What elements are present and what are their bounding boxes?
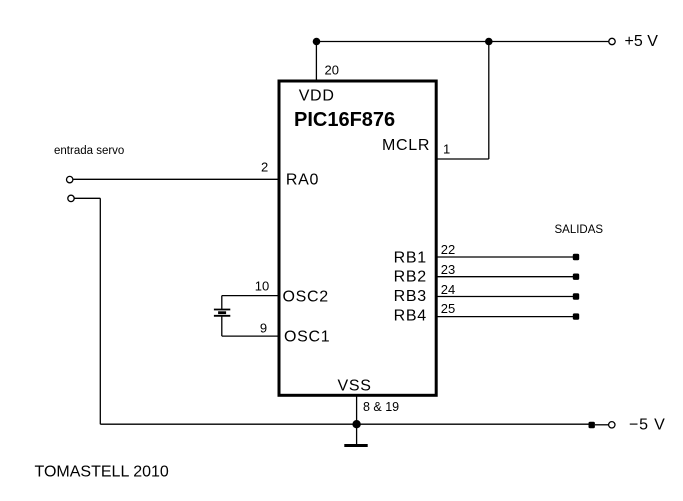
- svg-text:−5 V: −5 V: [629, 417, 666, 434]
- wire VSS pin stub: [356, 397, 358, 425]
- svg-text:+5 V: +5 V: [625, 33, 659, 50]
- svg-text:2: 2: [261, 160, 268, 175]
- terminal -5V open circle: [609, 422, 615, 428]
- svg-text:VDD: VDD: [299, 87, 335, 104]
- wire bottom -5V rail: [100, 423, 589, 425]
- svg-text:22: 22: [441, 242, 455, 257]
- svg-text:OSC2: OSC2: [283, 288, 329, 305]
- svg-text:PIC16F876: PIC16F876: [294, 109, 395, 131]
- junction dot at VDD riser: [313, 38, 321, 46]
- wire top +5V rail: [316, 41, 608, 43]
- svg-text:20: 20: [325, 63, 339, 78]
- svg-text:OSC1: OSC1: [284, 329, 330, 346]
- svg-text:23: 23: [441, 262, 455, 277]
- terminal entrada servo open circle A: [67, 176, 73, 182]
- svg-text:1: 1: [443, 141, 450, 156]
- RB1 end marker: [573, 254, 579, 260]
- crystal Y1 bottom plate: [214, 315, 230, 317]
- svg-text:VSS: VSS: [338, 378, 372, 395]
- svg-text:24: 24: [441, 282, 455, 297]
- svg-text:9: 9: [260, 321, 267, 336]
- RB2 end marker: [573, 274, 579, 280]
- terminal entrada servo open circle B: [68, 195, 74, 201]
- ground bar: [344, 444, 367, 447]
- wire from circle B horizontal: [75, 197, 101, 199]
- wire RB1 pin 22: [437, 256, 573, 258]
- wire RB4 pin 25: [437, 316, 573, 318]
- svg-text:TOMASTELL 2010: TOMASTELL 2010: [35, 463, 169, 480]
- ground stem: [356, 424, 358, 444]
- wire MCLR riser: [488, 42, 490, 160]
- wire MCLR pin 1 horizontal: [437, 158, 489, 160]
- wire VDD riser: [315, 42, 317, 81]
- wire RB2 pin 23: [437, 276, 573, 278]
- svg-text:RB4: RB4: [394, 307, 427, 324]
- svg-text:10: 10: [255, 279, 269, 294]
- wire left vertical down to -5V rail: [99, 198, 101, 424]
- junction dot VSS to rail: [352, 420, 360, 428]
- RB3 end marker: [573, 293, 579, 299]
- svg-text:25: 25: [441, 301, 455, 316]
- svg-text:8 & 19: 8 & 19: [363, 400, 399, 414]
- wire crystal top lead: [221, 296, 223, 310]
- crystal Y1 top plate: [214, 309, 230, 311]
- terminal +5V open circle: [609, 38, 615, 44]
- wire marker to -5V terminal: [595, 424, 609, 426]
- junction dot at MCLR riser: [485, 38, 493, 46]
- svg-text:RB1: RB1: [394, 250, 427, 267]
- crystal Y1 body bar: [218, 311, 226, 314]
- svg-text:RB2: RB2: [394, 268, 427, 285]
- svg-text:RB3: RB3: [394, 288, 427, 305]
- wire crystal bottom lead: [221, 316, 223, 336]
- IC U1 PIC16F876 body: [279, 81, 436, 395]
- wire RA0 pin 2: [73, 178, 278, 180]
- svg-text:MCLR: MCLR: [382, 137, 430, 154]
- svg-text:RA0: RA0: [286, 171, 319, 188]
- wire RB3 pin 24: [437, 296, 573, 298]
- RB4 end marker: [573, 313, 579, 319]
- wire OSC2 pin 10: [222, 295, 278, 297]
- rail end marker near -5V: [589, 422, 595, 428]
- wire OSC1 pin 9: [222, 335, 278, 337]
- svg-text:entrada servo: entrada servo: [54, 145, 124, 157]
- svg-text:SALIDAS: SALIDAS: [555, 224, 604, 236]
